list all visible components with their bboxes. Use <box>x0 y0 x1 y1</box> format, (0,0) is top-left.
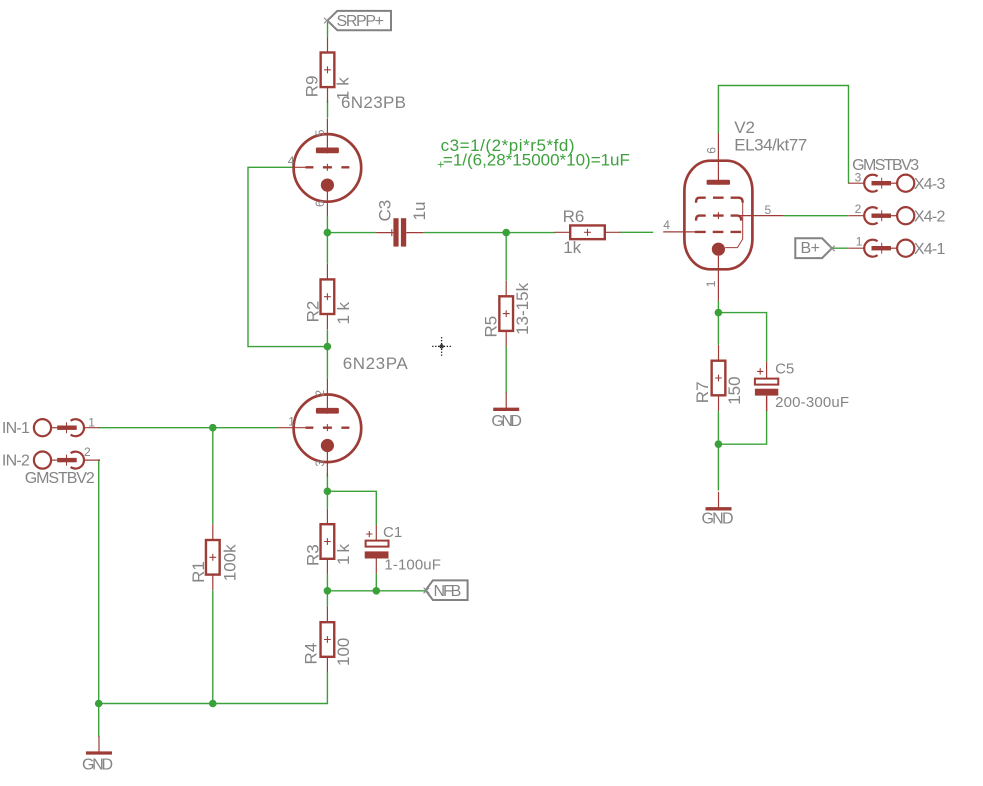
resistor R4 <box>321 607 335 673</box>
resistor R5 <box>499 281 513 347</box>
svg-text:+: + <box>437 158 444 172</box>
flag NFB <box>424 580 468 600</box>
resistor R6 <box>555 225 621 239</box>
resistor R1 <box>206 524 220 590</box>
tube V1B 6N23PB <box>293 118 361 216</box>
svg-text:C3: C3 <box>376 200 395 222</box>
wire: R1 bottom to ground rail <box>212 590 214 703</box>
svg-text:X4-2: X4-2 <box>914 208 946 225</box>
wire: C5 bottom to R7 bottom node <box>718 396 766 445</box>
svg-text:5: 5 <box>765 203 772 217</box>
junction node (ground rail / IN-2) <box>95 700 103 708</box>
wire: cathode node to C1 top <box>327 491 376 525</box>
svg-text:NFB: NFB <box>434 583 462 600</box>
wire: R3 bottom to R4 top <box>326 575 328 607</box>
svg-text:SRPP+: SRPP+ <box>337 13 385 30</box>
junction node (IN-1 / R1) <box>209 424 217 432</box>
svg-text:1-100uF: 1-100uF <box>384 557 441 574</box>
svg-text:1: 1 <box>288 414 295 428</box>
svg-text:IN-1: IN-1 <box>2 420 30 437</box>
svg-text:150: 150 <box>725 376 744 404</box>
svg-text:R1: R1 <box>189 561 208 583</box>
flag B+ <box>795 238 834 258</box>
svg-text:EL34/kt77: EL34/kt77 <box>734 136 807 155</box>
capacitor C5 <box>755 362 778 412</box>
svg-text:13-15k: 13-15k <box>513 282 532 334</box>
svg-text:1: 1 <box>704 280 718 287</box>
wire: SRPP+ flag to R9 top <box>327 22 329 37</box>
junction node (V1A cathode / R3 / C1) <box>324 488 332 496</box>
svg-text:100: 100 <box>334 638 353 666</box>
resistor R7 <box>712 345 726 411</box>
resistor R3 <box>321 509 335 575</box>
svg-text:2: 2 <box>313 390 327 397</box>
connector X4-2 <box>848 207 914 224</box>
ground GND (R5) <box>493 392 519 411</box>
wire: IN-1 to V1A grid <box>99 427 277 429</box>
wire: V1B grid loop down to V1A anode node <box>248 167 327 346</box>
svg-text:GND: GND <box>491 413 522 430</box>
wire: R7 bottom to GND node <box>717 411 719 490</box>
tube V1A 6N23PA <box>293 379 361 477</box>
wire: V2 cathode down <box>717 301 719 345</box>
svg-text:6: 6 <box>704 147 718 154</box>
connector IN-2 <box>34 452 100 469</box>
svg-text:1: 1 <box>856 234 863 248</box>
svg-text:1: 1 <box>88 415 95 429</box>
svg-text:200-300uF: 200-300uF <box>775 394 849 411</box>
junction node (C1 bottom / NFB) <box>373 587 381 595</box>
svg-text:R9: R9 <box>303 75 322 97</box>
resistor R2 <box>321 264 335 330</box>
svg-text:V2: V2 <box>734 118 755 137</box>
svg-text:GND: GND <box>702 511 734 528</box>
connector X4-3 <box>848 175 914 192</box>
svg-text:R2: R2 <box>303 301 322 323</box>
svg-text:R5: R5 <box>482 316 501 338</box>
svg-text:GMSTBV3: GMSTBV3 <box>852 157 919 174</box>
wire: C3 right to R6 left <box>423 232 555 234</box>
svg-text:1k: 1k <box>334 544 353 566</box>
svg-text:2: 2 <box>855 202 862 216</box>
junction node (R3 bottom / NFB) <box>324 587 332 595</box>
svg-text:2: 2 <box>84 445 91 459</box>
svg-text:R3: R3 <box>303 544 322 566</box>
wire: R2 bottom to V1A anode <box>326 330 328 379</box>
wire: R6 right to V2 grid <box>620 231 654 233</box>
svg-text:6N23PA: 6N23PA <box>343 354 409 373</box>
svg-text:3: 3 <box>855 171 862 185</box>
ground GND (R7) <box>706 492 732 511</box>
connector IN-1 <box>34 419 100 436</box>
svg-text:1k: 1k <box>563 238 581 257</box>
junction node (R2 / V1A anode / V1B grid) <box>324 343 332 351</box>
svg-text:IN-2: IN-2 <box>2 453 30 470</box>
resistor R9 <box>321 37 335 103</box>
junction node (C3 / R5) <box>502 229 510 237</box>
capacitor C1 <box>365 525 389 574</box>
wire: C1 bottom to node <box>375 574 377 591</box>
svg-text:C1: C1 <box>383 524 402 541</box>
svg-text:X4-3: X4-3 <box>914 176 946 193</box>
pin stub: V1A grid <box>277 427 294 429</box>
wire: R5 bottom to GND <box>505 347 507 393</box>
svg-text:6: 6 <box>313 200 327 207</box>
wire: V2 pin5 to X4-2 <box>784 215 849 217</box>
connector X4-1 <box>848 240 914 257</box>
svg-text:C5: C5 <box>775 360 794 377</box>
svg-text:4: 4 <box>663 218 670 232</box>
junction node (V2 cathode / R7 / C5) <box>715 309 723 317</box>
wire: cathode node to C5 top <box>718 313 766 362</box>
svg-text:B+: B+ <box>801 240 821 257</box>
svg-text:GMSTBV2: GMSTBV2 <box>25 470 95 487</box>
wire: R9 bottom to V1B anode <box>327 101 329 118</box>
tube V2 EL34 pentode <box>663 133 783 301</box>
svg-text:4: 4 <box>288 154 295 168</box>
wire: IN-2 down to ground rail and GND <box>99 460 100 737</box>
svg-text:=1/(6,28*15000*10)=1uF: =1/(6,28*15000*10)=1uF <box>443 150 630 169</box>
svg-text:1k: 1k <box>334 77 353 101</box>
flag SRPP+ <box>324 11 391 30</box>
wire: R1 top to IN-1 net <box>212 428 214 525</box>
svg-text:3: 3 <box>313 460 327 467</box>
svg-text:100k: 100k <box>221 544 240 581</box>
wire: V2 anode to top rail to X4-3 <box>718 86 848 184</box>
capacitor C3 <box>376 218 423 246</box>
wire: node to NFB flag <box>327 590 425 592</box>
svg-text:GND: GND <box>82 756 113 773</box>
wire: V1B cathode down to node <box>326 216 328 263</box>
svg-text:R6: R6 <box>563 207 585 226</box>
svg-text:X4-1: X4-1 <box>914 241 946 258</box>
junction node (R7 bottom / C5 / GND) <box>715 440 723 448</box>
wire: node to C3 left <box>327 232 376 234</box>
svg-text:1u: 1u <box>410 202 429 221</box>
wire: B+ flag to X4-1 <box>832 247 848 249</box>
ground GND (input rail) <box>86 736 112 755</box>
wire: R4 bottom to ground rail <box>99 673 328 704</box>
junction node (V1B cathode / C3) <box>324 229 332 237</box>
junction node (ground rail / R1) <box>209 700 217 708</box>
svg-text:1k: 1k <box>334 302 353 325</box>
wire: V1A cathode to R3 top <box>326 474 328 509</box>
cursor crosshair <box>432 337 451 356</box>
svg-text:5: 5 <box>313 129 327 136</box>
svg-text:R4: R4 <box>301 643 320 665</box>
wire: R5 top to C3 net <box>505 233 507 281</box>
svg-text:R7: R7 <box>693 381 712 403</box>
